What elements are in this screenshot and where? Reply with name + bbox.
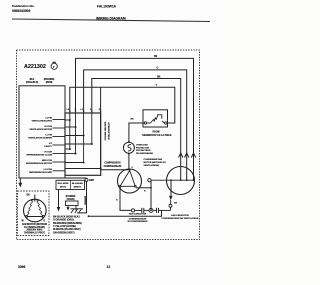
switch row 1 bbox=[65, 119, 70, 121]
switch internal bus 3 bbox=[83, 113, 85, 163]
svg-text:r: r bbox=[53, 64, 55, 69]
power cord lead 1 with arrow bbox=[58, 190, 60, 208]
svg-text:REFRIGERATION GRD: REFRIGERATION GRD bbox=[29, 171, 52, 174]
svg-text:COMPRESSOR: COMPRESSOR bbox=[104, 163, 121, 165]
wire color labels top-left bbox=[26, 79, 55, 84]
run capacitor label bbox=[162, 214, 199, 220]
switch internal bus 2 bbox=[75, 113, 77, 154]
compressor S lead bbox=[120, 187, 131, 210]
wire w3 brown bbox=[92, 79, 181, 181]
svg-text:Publication No.: Publication No. bbox=[12, 4, 35, 8]
svg-text:L2 PIN: L2 PIN bbox=[45, 118, 52, 120]
switch rotated label bbox=[104, 122, 110, 141]
svg-text:PROTECTEUR: PROTECTEUR bbox=[136, 150, 151, 152]
wire main bus to thermostat bbox=[70, 87, 175, 123]
svg-text:(HOT): (HOT) bbox=[60, 187, 66, 189]
svg-text:DE SURCHARGE: DE SURCHARGE bbox=[136, 152, 153, 155]
run capacitor section 2 bbox=[153, 208, 171, 213]
wire overload to compressor bbox=[128, 154, 130, 169]
switch internal bus 5 bbox=[100, 113, 102, 169]
svg-text:ROOM: ROOM bbox=[153, 132, 160, 134]
power plug body bbox=[66, 201, 79, 206]
overload protector OL bbox=[123, 141, 134, 155]
svg-text:LO CON: LO CON bbox=[44, 169, 53, 171]
svg-text:BK: BK bbox=[131, 119, 135, 121]
switch internal bus 4 bbox=[91, 113, 93, 144]
svg-text:R: R bbox=[144, 191, 146, 193]
svg-text:REFRIGERATION CLOSE: REFRIGERATION CLOSE bbox=[26, 154, 52, 157]
switch row 5 bbox=[65, 153, 76, 155]
wire riser t5 bbox=[100, 87, 102, 113]
svg-text:INTERRUPTEUR: INTERRUPTEUR bbox=[107, 122, 109, 140]
wire w2 orange bbox=[84, 70, 187, 180]
fan motor label bbox=[22, 223, 47, 234]
run capacitor C2 bbox=[135, 208, 149, 213]
switch row 7 bbox=[65, 168, 101, 170]
fan motor M1 bbox=[22, 195, 47, 223]
svg-text:GRD: GRD bbox=[89, 180, 94, 182]
svg-text:FAL103W1A: FAL103W1A bbox=[97, 5, 117, 9]
thermostat label bbox=[142, 132, 172, 137]
svg-text:1: 1 bbox=[74, 109, 76, 111]
svg-text:DU VENTILATEUR): DU VENTILATEUR) bbox=[24, 226, 45, 229]
switch terminal labels bbox=[67, 109, 101, 111]
left connector labels bbox=[26, 118, 53, 174]
svg-text:3096: 3096 bbox=[18, 265, 26, 269]
fan motor dashed box bbox=[18, 191, 50, 236]
svg-text:A221302: A221302 bbox=[24, 64, 46, 70]
thermostat TH1 bbox=[143, 110, 168, 127]
header model number bbox=[96, 5, 126, 21]
leader line 4 bbox=[53, 144, 66, 146]
switch row 4 bbox=[65, 143, 92, 145]
capacitor left label bbox=[128, 213, 148, 224]
neutral wire to compressor bbox=[101, 169, 130, 171]
ground terminal GRD bbox=[85, 178, 94, 182]
svg-text:MOTOR (MOTEUR DU: MOTOR (MOTEUR DU bbox=[144, 162, 167, 164]
compressor label bbox=[104, 163, 122, 168]
svg-text:(BROWN): (BROWN) bbox=[44, 79, 55, 81]
wire to fan motor box bbox=[19, 178, 21, 184]
header publication label bbox=[12, 4, 35, 13]
switch row 2 bbox=[65, 126, 76, 128]
wire thermostat to overload bbox=[129, 123, 144, 142]
svg-text:(GREEN): (GREEN) bbox=[83, 196, 85, 205]
svg-text:GY: GY bbox=[49, 143, 53, 145]
svg-text:HI CON: HI CON bbox=[45, 152, 53, 154]
svg-text:MASTER SWITCH: MASTER SWITCH bbox=[104, 122, 107, 141]
fan motor lead with arrow bbox=[170, 180, 172, 195]
color legend bbox=[53, 215, 82, 234]
green ground wire bbox=[77, 181, 87, 213]
svg-text:DU COMPRESSEUR: DU COMPRESSEUR bbox=[128, 221, 148, 223]
svg-text:O: O bbox=[157, 68, 159, 70]
svg-text:208/230V 60HZ: 208/230V 60HZ bbox=[26, 230, 43, 232]
fan motor 2 label bbox=[144, 158, 167, 167]
switch row 4b bbox=[65, 148, 70, 150]
svg-text:SR: SR bbox=[174, 203, 177, 205]
svg-text:RUN CAPACITOR: RUN CAPACITOR bbox=[129, 213, 147, 216]
leader line 3 bbox=[53, 136, 66, 138]
overload label bbox=[136, 144, 153, 155]
switch row 6 bbox=[65, 162, 84, 164]
svg-text:12: 12 bbox=[107, 265, 111, 269]
svg-text:CAVITY: CAVITY bbox=[44, 145, 52, 148]
junction terminal circled bbox=[149, 208, 153, 212]
svg-text:GN-GREEN (VERT): GN-GREEN (VERT) bbox=[53, 231, 75, 234]
svg-text:HI CON: HI CON bbox=[45, 126, 53, 128]
disconnect chevron w1 bbox=[191, 153, 195, 158]
switch internal bus 1 bbox=[69, 113, 71, 149]
svg-text:W: W bbox=[22, 221, 25, 223]
svg-text:R: R bbox=[44, 221, 46, 223]
arrow into fan motor box bbox=[18, 183, 22, 188]
leader line 1 bbox=[53, 119, 66, 121]
svg-text:(BRN): (BRN) bbox=[46, 82, 53, 84]
header rule bbox=[12, 19, 210, 22]
disconnect chevron w2 bbox=[185, 153, 189, 158]
power cord label bbox=[66, 195, 76, 201]
svg-text:FAN MOTOR (MOTEUR: FAN MOTOR (MOTEUR bbox=[22, 223, 47, 226]
power cord table bbox=[56, 180, 85, 189]
terminal arrowheads bbox=[69, 111, 102, 113]
svg-text:(ORG-BLK): (ORG-BLK) bbox=[26, 82, 38, 84]
svg-text:OVERLOAD: OVERLOAD bbox=[136, 144, 148, 147]
control box bbox=[19, 86, 65, 178]
svg-text:(NEUT): (NEUT) bbox=[74, 187, 82, 189]
ground wire extension bbox=[65, 177, 87, 179]
svg-text:BLK: BLK bbox=[30, 79, 35, 81]
svg-text:FAN CAPACITOR: FAN CAPACITOR bbox=[171, 214, 189, 217]
plug prong with arrow bbox=[67, 206, 69, 209]
wire w1 black bbox=[76, 58, 194, 180]
leader line 6 bbox=[53, 161, 66, 163]
svg-text:BK: BK bbox=[27, 195, 31, 197]
chassis ground symbol bbox=[71, 209, 84, 213]
svg-text:5995243505: 5995243505 bbox=[12, 9, 31, 13]
svg-text:THERMOSTAT DE LA PIECE: THERMOSTAT DE LA PIECE bbox=[142, 134, 172, 137]
svg-text:COMPRESSEUR: COMPRESSEUR bbox=[104, 166, 122, 168]
svg-text:C: C bbox=[132, 167, 134, 169]
svg-text:REFRIGERATION MOTOR: REFRIGERATION MOTOR bbox=[26, 162, 53, 165]
condenser fan motor M2 bbox=[148, 167, 195, 195]
svg-text:CONDENSATEUR: CONDENSATEUR bbox=[129, 217, 147, 220]
svg-text:MED CON: MED CON bbox=[42, 160, 53, 162]
plug prong 2 bbox=[75, 206, 77, 211]
svg-text:VENTILATION (VNT): VENTILATION (VNT) bbox=[32, 120, 53, 123]
disconnect chevron w3 bbox=[179, 153, 183, 158]
svg-text:BLU-BLEU: BLU-BLEU bbox=[72, 183, 84, 185]
leader line 2 bbox=[53, 127, 66, 129]
leader line 7 bbox=[53, 170, 66, 172]
switch row 3 bbox=[65, 135, 84, 137]
svg-text:BR: BR bbox=[157, 76, 161, 78]
svg-text:S: S bbox=[116, 200, 118, 202]
compressor R lead bbox=[136, 187, 151, 189]
compressor C1 bbox=[118, 167, 142, 193]
footer page info bbox=[18, 265, 110, 269]
svg-text:VENTILATION DAMPER: VENTILATION DAMPER bbox=[28, 137, 52, 140]
wire fan common down to capacitor junction bbox=[150, 180, 152, 210]
leader line 5 bbox=[53, 153, 66, 155]
svg-text:VENTILATEUR): VENTILATEUR) bbox=[144, 164, 160, 167]
svg-text:CONDENSER FAN: CONDENSER FAN bbox=[144, 158, 163, 161]
selector switch block bbox=[65, 113, 101, 175]
title A221302 bbox=[24, 62, 57, 70]
svg-text:PROTECTOR: PROTECTOR bbox=[136, 147, 150, 149]
outer border bbox=[17, 50, 200, 240]
svg-text:BLK-NOIR: BLK-NOIR bbox=[58, 183, 69, 185]
svg-text:CONDENSATEUR DE VENTILATEUR: CONDENSATEUR DE VENTILATEUR bbox=[162, 217, 199, 220]
capacitor chain terminal left bbox=[131, 209, 134, 212]
svg-text:BK: BK bbox=[154, 56, 158, 58]
svg-text:VENTILATION MOTOR: VENTILATION MOTOR bbox=[29, 128, 52, 131]
svg-text:THERMALLY PROT.: THERMALLY PROT. bbox=[24, 231, 46, 234]
neutral return wire bbox=[89, 210, 162, 216]
junction at compressor top bbox=[129, 169, 131, 171]
svg-text:L1 PIN: L1 PIN bbox=[45, 135, 52, 137]
fan lead terminal bbox=[169, 204, 172, 207]
